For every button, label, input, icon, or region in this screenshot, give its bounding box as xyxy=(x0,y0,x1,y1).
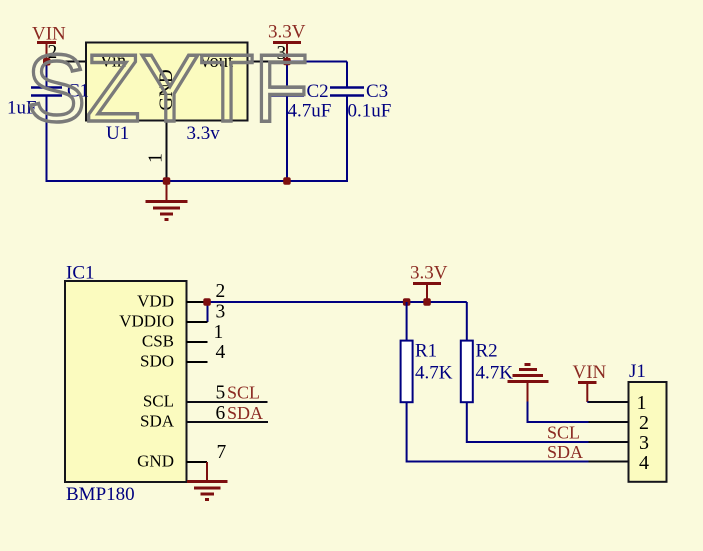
svg-text:1: 1 xyxy=(637,392,647,414)
svg-text:CSB: CSB xyxy=(142,332,174,351)
wire: R1 top xyxy=(406,302,408,341)
power 3.3V (bottom) xyxy=(410,263,448,303)
power VIN (at J1 pin 1) xyxy=(573,362,607,402)
svg-text:GND: GND xyxy=(137,452,174,471)
svg-text:1: 1 xyxy=(145,153,167,163)
svg-text:IC1: IC1 xyxy=(66,263,95,284)
svg-text:C3: C3 xyxy=(366,81,388,102)
pin 5 (SCL) xyxy=(143,383,225,411)
svg-text:5: 5 xyxy=(216,383,226,404)
svg-text:7: 7 xyxy=(217,442,227,463)
pin 7 (GND) xyxy=(137,442,226,471)
svg-text:3.3V: 3.3V xyxy=(410,263,448,284)
svg-text:SDA: SDA xyxy=(140,412,175,431)
svg-text:SCL: SCL xyxy=(143,392,174,411)
connector J1 body xyxy=(629,382,667,482)
svg-text:SDA: SDA xyxy=(227,403,263,423)
svg-text:3: 3 xyxy=(639,432,649,454)
wire: VDD node to R2 top xyxy=(207,301,467,303)
pin 4 (SDO) xyxy=(140,342,226,371)
ground (IC1 pin 7) xyxy=(187,462,228,500)
wire: ground rail xyxy=(46,180,349,182)
svg-text:R2: R2 xyxy=(476,341,498,362)
svg-text:VDDIO: VDDIO xyxy=(119,312,174,331)
svg-text:2: 2 xyxy=(216,281,226,302)
svg-text:SZYTF: SZYTF xyxy=(27,35,309,142)
junction: R1 top at 3.3V rail xyxy=(403,298,411,306)
pin: U1 Vin (pin 2) xyxy=(47,61,87,63)
svg-text:SCL: SCL xyxy=(547,423,580,443)
wire: down to C3 top xyxy=(346,62,348,88)
pin 5 stub (SCL) xyxy=(187,401,268,403)
wire: VIN to J1 pin 1 xyxy=(587,401,598,403)
pin 6 stub (SDA) xyxy=(187,421,269,423)
junction: 3.3V power stub at rail xyxy=(423,298,431,306)
wire: C1 bottom to ground rail xyxy=(46,96,48,183)
IC IC1 (BMP180) body xyxy=(65,281,187,482)
svg-text:R1: R1 xyxy=(415,341,437,362)
ground (power ground, top circuit) xyxy=(146,181,188,220)
power VIN (input) xyxy=(32,24,66,62)
pin 2 stub (J1) xyxy=(589,421,629,423)
junction: VIN / C1 node xyxy=(43,58,51,66)
svg-text:4.7K: 4.7K xyxy=(415,363,453,384)
resistor R1 xyxy=(401,341,413,403)
regulator U1 body xyxy=(86,43,248,121)
wire: R2 bottom to J1 pin 3 (SCL net) xyxy=(467,402,629,442)
wire: ground to J1 pin 2 xyxy=(528,402,629,423)
pin 1 stub (J1) xyxy=(589,401,629,403)
pin 1 (CSB) xyxy=(142,322,223,351)
svg-text:SDA: SDA xyxy=(547,442,583,462)
svg-text:C2: C2 xyxy=(307,81,329,102)
svg-text:J1: J1 xyxy=(629,361,646,382)
pin 4 stub (J1) xyxy=(589,461,629,463)
svg-text:0.1uF: 0.1uF xyxy=(348,101,392,122)
svg-text:1: 1 xyxy=(214,322,224,343)
wire: C2 bottom to ground rail xyxy=(286,96,288,182)
wire: R1 bottom to J1 pin 4 (SDA net) xyxy=(407,402,629,461)
svg-text:VIN: VIN xyxy=(573,362,607,383)
capacitor C1 xyxy=(31,88,62,96)
pin: U1 Vout (pin 3) xyxy=(248,61,288,63)
svg-text:3: 3 xyxy=(216,302,226,323)
pin: U1 GND (pin 1) xyxy=(166,121,168,182)
capacitor C2 xyxy=(271,88,304,96)
resistor R2 xyxy=(461,341,473,403)
svg-text:BMP180: BMP180 xyxy=(66,484,135,505)
junction: C2 at ground rail xyxy=(283,177,291,185)
pin 6 (SDA) xyxy=(140,403,226,431)
ground (flipped, at J1 pin 2) xyxy=(508,365,549,402)
pin 3 (VDDIO) xyxy=(119,302,225,331)
junction: 3.3V output node xyxy=(283,58,291,66)
wire: R2 top xyxy=(466,302,468,341)
wire: C3 bottom to ground rail xyxy=(346,96,348,183)
svg-text:VDD: VDD xyxy=(137,292,174,311)
wire: 3.3V node to C3 xyxy=(287,61,347,63)
svg-text:2: 2 xyxy=(639,412,649,434)
capacitor C3 xyxy=(330,88,364,96)
svg-text:6: 6 xyxy=(216,403,226,424)
svg-text:SCL: SCL xyxy=(227,383,260,403)
wire: VDDIO riser to VDD node xyxy=(207,302,209,322)
junction: U1 GND at ground rail xyxy=(163,177,171,185)
power 3.3V (regulator output) xyxy=(268,22,306,62)
wire: 3.3V node down to C2 top xyxy=(286,62,288,88)
svg-text:SDO: SDO xyxy=(140,352,174,371)
svg-text:4: 4 xyxy=(216,342,226,363)
pin 3 stub (J1) xyxy=(589,441,629,443)
wire: VIN rail down to C1 top xyxy=(46,62,48,88)
svg-text:4: 4 xyxy=(639,452,649,474)
junction: VDD node at IC pin 2 xyxy=(203,298,211,306)
pin 2 (VDD) xyxy=(137,281,225,311)
